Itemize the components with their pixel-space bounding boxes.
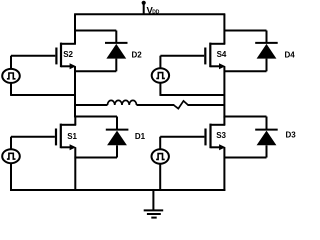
wire D4 anode to right midpoint xyxy=(224,70,267,72)
wire bottom rail xyxy=(10,189,225,191)
transistor S3 drain riser xyxy=(223,117,225,125)
wire top rail VDD xyxy=(74,13,225,15)
transistor S1 drain riser xyxy=(74,117,76,125)
ground bar 3 xyxy=(151,217,156,219)
wire S3 drain rail to D3 xyxy=(224,116,266,118)
transistor S2 channel bar xyxy=(60,43,62,68)
wire pulse V4 top lead xyxy=(159,56,161,69)
VDD terminal stem xyxy=(143,3,145,14)
transistor S4 source lead xyxy=(210,65,220,67)
svg-text:S4: S4 xyxy=(217,50,227,59)
wire middle rail right xyxy=(188,104,225,106)
diode D4 cathode lead xyxy=(266,31,268,43)
diode D1 anode lead xyxy=(116,145,118,157)
wire D1 anode to S1 source xyxy=(74,157,117,159)
diode D3 body xyxy=(257,131,277,146)
wire D2 anode to midpoint xyxy=(74,70,116,72)
transistor S1 source lead xyxy=(61,146,71,148)
transistor S2 gate bar xyxy=(55,48,57,65)
node VDD dot xyxy=(142,1,146,5)
wire pulse V3 bottom lead xyxy=(159,164,161,190)
break symbol zigzag xyxy=(174,101,188,109)
wire middle rail center xyxy=(137,104,175,106)
diode D1 cathode lead xyxy=(116,117,118,130)
svg-text:S3: S3 xyxy=(216,131,226,140)
source V4 circle xyxy=(152,68,169,82)
transistor S2 source lead xyxy=(61,65,71,67)
transistor S1 gate lead xyxy=(11,136,55,138)
diode D1 body xyxy=(107,131,127,146)
source V4 pulse glyph xyxy=(156,73,165,79)
wire branch to D2 cathode xyxy=(75,30,116,32)
transistor S4 channel bar xyxy=(209,43,211,68)
source V2 circle xyxy=(2,149,20,163)
transistor S3 source arrow xyxy=(219,144,225,150)
diode D2 body xyxy=(106,44,126,59)
diode D3 anode lead xyxy=(266,145,268,157)
ground bar 1 xyxy=(144,209,164,211)
wire right rail drop to S4 drain xyxy=(223,14,225,44)
transistor S2 source arrow xyxy=(70,63,76,69)
wire S1 drain rail to D1 xyxy=(75,116,117,118)
wire left midpoint vertical xyxy=(74,66,76,117)
svg-text:D2: D2 xyxy=(132,50,143,59)
transistor S3 gate lead xyxy=(160,136,204,138)
diode D1 cathode bar xyxy=(106,129,129,131)
transistor S3 drain lead xyxy=(211,124,226,126)
wire right midpoint vertical xyxy=(223,66,225,117)
transistor S3 gate bar xyxy=(204,129,206,146)
wire S3 source vertical to bottom rail xyxy=(223,147,225,191)
source V1 pulse glyph xyxy=(7,73,16,79)
diode D2 cathode bar xyxy=(105,42,128,44)
transistor S4 gate bar xyxy=(204,48,206,65)
transistor S1 drain lead xyxy=(61,124,76,126)
source V3 circle xyxy=(152,149,169,163)
wire D3 anode to S3 source xyxy=(224,157,267,159)
transistor S3 channel bar xyxy=(209,124,211,149)
source V3 pulse glyph xyxy=(156,154,165,160)
diode D4 cathode bar xyxy=(255,42,278,44)
wire V1 return to left midpoint xyxy=(11,94,75,96)
wire V4 return to right midpoint xyxy=(160,94,224,96)
wire pulse V1 top lead xyxy=(10,56,12,69)
diode D4 body xyxy=(257,44,277,59)
transistor S1 gate bar xyxy=(55,129,57,146)
svg-text:S1: S1 xyxy=(67,132,77,141)
diode D3 cathode lead xyxy=(266,117,268,130)
wire left rail drop to S2 drain xyxy=(74,14,76,44)
svg-text:D4: D4 xyxy=(285,50,296,59)
inductor L1 xyxy=(108,100,137,105)
diode D4 anode lead xyxy=(266,59,268,72)
wire pulse V3 top lead xyxy=(159,137,161,150)
transistor S4 drain lead xyxy=(210,43,225,45)
transistor S4 source arrow xyxy=(219,63,225,69)
svg-text:DD: DD xyxy=(152,9,160,15)
svg-text:D3: D3 xyxy=(286,131,297,140)
transistor S1 channel bar xyxy=(60,124,62,149)
svg-text:D1: D1 xyxy=(135,132,146,141)
diode D2 anode lead xyxy=(115,59,117,72)
transistor S1 source arrow xyxy=(70,144,76,150)
diode D3 cathode bar xyxy=(255,129,278,131)
transistor S3 source lead xyxy=(211,146,221,148)
wire pulse V2 top lead xyxy=(10,137,12,150)
source V2 pulse glyph xyxy=(7,153,16,159)
transistor S4 gate lead xyxy=(160,55,204,57)
wire S1 source vertical to bottom rail xyxy=(74,147,76,190)
wire branch to D4 cathode xyxy=(224,30,266,32)
diode D2 cathode lead xyxy=(115,31,117,43)
wire middle rail left xyxy=(75,104,108,106)
source V1 circle xyxy=(2,69,20,83)
transistor S2 gate lead xyxy=(11,55,55,57)
ground bar 2 xyxy=(147,213,161,215)
svg-text:S2: S2 xyxy=(63,50,73,59)
wire pulse V2 bottom lead xyxy=(10,163,12,191)
wire pulse V4 bottom lead xyxy=(159,83,161,96)
transistor S2 drain lead xyxy=(61,43,76,45)
wire pulse V1 bottom lead xyxy=(10,83,12,96)
ground stem xyxy=(152,190,154,210)
